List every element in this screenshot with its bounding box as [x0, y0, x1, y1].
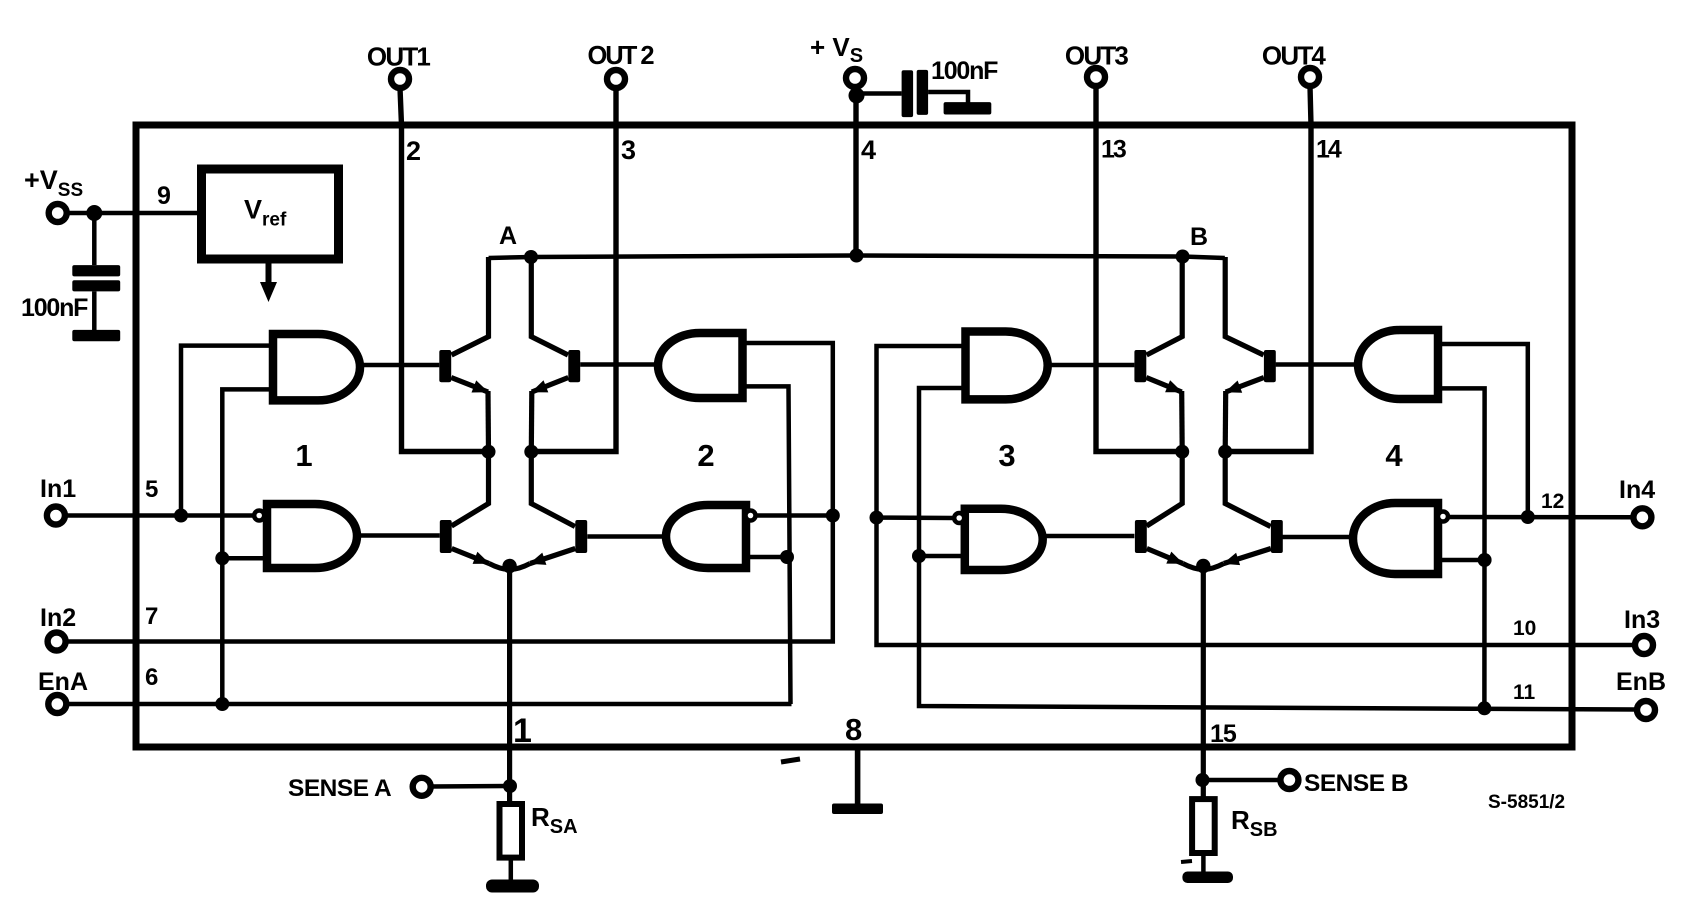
svg-text:EnA: EnA [38, 668, 88, 696]
AND gate 4 upper [1358, 330, 1438, 399]
svg-text:3: 3 [998, 438, 1015, 473]
wire gate 2 lower output [587, 534, 666, 539]
wire In1 to gate 1 input [181, 346, 273, 516]
wire In4 pin 12 [1448, 515, 1635, 520]
svg-text:3: 3 [621, 135, 636, 165]
svg-text:+VSS: +VSS [24, 165, 83, 201]
svg-text:RSA: RSA [531, 802, 578, 838]
AND gate 1 upper [273, 334, 360, 400]
junction EnA/gate1 lower [215, 551, 229, 565]
transistor Q2 collector wire [531, 257, 568, 355]
wire In2 pin 7 [64, 343, 833, 642]
IC outline box [136, 125, 1572, 747]
svg-text:1: 1 [513, 712, 532, 750]
stray mark 2 [1181, 861, 1192, 862]
svg-text:S-5851/2: S-5851/2 [1488, 792, 1565, 813]
wire gate 1 upper output [360, 363, 439, 368]
AND gate 3 upper [966, 332, 1048, 400]
wire OUT4 pin 14 [1226, 86, 1311, 452]
wire OUT3 pin 13 [1096, 86, 1182, 452]
junction EnA/gate2 lower [780, 550, 794, 564]
terminal OUT2 (pin 3) [607, 70, 625, 88]
junction EnB/gate4 [1477, 701, 1491, 715]
wire Q1 emitter to output node [485, 391, 491, 452]
wire RSB to ground [1201, 853, 1206, 874]
svg-text:14: 14 [1316, 136, 1342, 164]
wire gate 3 lower output [1043, 534, 1135, 539]
ground (RSA) [486, 880, 539, 893]
wire SENSE A lead [431, 784, 510, 789]
ground (left cap) [72, 330, 120, 341]
transistor Q2 emitter [532, 378, 569, 393]
wire EnA to gate 2 inputs [743, 386, 791, 704]
wire EnB pin 11 [919, 388, 1637, 710]
terminal OUT3 (pin 13) [1087, 68, 1105, 86]
transistor Q4 collector wire [531, 452, 575, 527]
wire EnA branch to gate 1 lower input [222, 556, 267, 561]
resistor RSA [500, 804, 523, 858]
wire +Vss pin 9 [65, 211, 203, 216]
svg-text:2: 2 [406, 136, 421, 166]
terminal In1 (pin 5) [47, 507, 65, 525]
wire common emitter bowl A [489, 564, 530, 570]
wire common emitter bowl B [1183, 564, 1224, 570]
junction sense A [503, 779, 517, 793]
wire gate 1 lower output [357, 533, 440, 538]
AND gate 4 lower [1353, 503, 1438, 574]
wire cap C1 top lead [92, 213, 97, 265]
terminal EnA (pin 6) [48, 695, 66, 713]
svg-text:11: 11 [1513, 681, 1536, 704]
wire In3 to gate 3 lower bubble [877, 515, 955, 520]
terminal In2 (pin 7) [48, 633, 66, 651]
node B [1176, 250, 1190, 264]
output node B left (junction) [1175, 445, 1189, 459]
terminal SENSE A [413, 778, 431, 796]
svg-text:100nF: 100nF [21, 294, 88, 322]
wire OUT2 pin 3 [531, 88, 616, 452]
terminal In3 (pin 10) [1635, 636, 1653, 654]
transistor Q8 base [1271, 520, 1283, 553]
svg-text:9: 9 [157, 182, 171, 210]
wire In1 pin 5 [64, 513, 255, 518]
svg-text:13: 13 [1101, 136, 1126, 164]
inverter bubble gate 3 lower input [954, 513, 964, 523]
svg-text:OUT 2: OUT 2 [587, 42, 654, 70]
transistor Q1 emitter [451, 378, 488, 393]
transistor Q2 base [568, 350, 580, 382]
transistor Q4 emitter [530, 549, 575, 564]
junction In4/gate4 upper [1521, 510, 1535, 524]
transistor Q3 collector wire [452, 452, 489, 526]
wire OUT1 pin 2 [400, 88, 489, 452]
output node A left (junction) [482, 445, 496, 459]
transistor Q7 base [1135, 520, 1147, 553]
AND gate 3 lower [965, 509, 1043, 570]
svg-text:In1: In1 [40, 475, 76, 503]
svg-text:15: 15 [1210, 720, 1237, 748]
svg-text:12: 12 [1541, 490, 1564, 513]
wire gate 3 upper output [1048, 363, 1135, 368]
transistor Q5 base [1134, 350, 1146, 382]
junction EnA/gate1 branch [215, 697, 229, 711]
transistor Q6 emitter [1226, 378, 1264, 393]
wire cap C1 bottom lead [92, 291, 97, 331]
transistor Q6 base [1264, 350, 1276, 382]
capacitor C1 100nF plate 1 [72, 265, 120, 276]
terminal OUT1 (pin 2) [391, 70, 409, 88]
output node A right (junction) [524, 445, 538, 459]
wire Q6 emitter to output node [1223, 391, 1229, 452]
inverter bubble gate 1 lower input [254, 511, 264, 521]
junction sense B [1196, 773, 1210, 787]
svg-text:1: 1 [295, 438, 312, 473]
wire EnB branch to gate 3 lower input [919, 554, 965, 559]
arrow below Vref [266, 259, 272, 284]
junction +Vs/cap [849, 88, 865, 104]
svg-text:8: 8 [845, 712, 862, 747]
svg-text:OUT1: OUT1 [367, 42, 430, 72]
wire SENSE B lead [1203, 778, 1280, 783]
transistor Q7 emitter [1147, 549, 1183, 564]
wire +Vs pin 4 [855, 87, 856, 256]
terminal SENSE B [1280, 771, 1298, 789]
wire RSA to ground [509, 858, 514, 882]
transistor Q8 emitter [1224, 549, 1271, 564]
wire Q5 emitter to output node [1179, 391, 1185, 452]
wire EnA pin 6 [65, 702, 792, 707]
svg-text:Vref: Vref [244, 195, 287, 231]
wire In3 pin 10 [877, 346, 1637, 645]
junction In1/gate1 [174, 509, 188, 523]
wire EnB branch to gate 4 lower input [1438, 558, 1485, 563]
transistor Q1 base [439, 350, 451, 382]
transistor Q3 emitter [452, 549, 489, 564]
svg-text:A: A [499, 222, 517, 250]
AND gate 1 lower [267, 504, 357, 568]
svg-text:B: B [1190, 223, 1208, 251]
AND gate 2 upper [658, 333, 743, 398]
transistor Q1 collector wire [452, 257, 489, 355]
wire gate 2 upper output [580, 362, 658, 367]
stray mark [781, 759, 800, 762]
svg-text:In4: In4 [1619, 476, 1655, 504]
wire EnB to gate 4 inputs [1438, 388, 1485, 707]
capacitor C2 100nF plate 1 [902, 70, 914, 117]
transistor Q4 base [575, 520, 587, 553]
svg-text:+ VS: + VS [810, 32, 863, 67]
svg-text:5: 5 [145, 476, 158, 503]
wire pin 15 sense B [1201, 566, 1206, 801]
terminal In4 (pin 12) [1633, 508, 1651, 526]
output node B right (junction) [1218, 445, 1232, 459]
terminal +Vss (pin 9) [49, 204, 67, 222]
wire gate 4 upper output [1276, 362, 1358, 367]
svg-text:2: 2 [697, 438, 714, 473]
node A [524, 250, 538, 264]
junction In3/gate3 lower [870, 511, 884, 525]
wire internal +Vs rail [489, 256, 1225, 259]
svg-text:RSB: RSB [1231, 805, 1278, 841]
common emitter node B (junction) [1196, 559, 1210, 573]
inverter bubble gate 4 lower input [1438, 512, 1448, 522]
svg-text:OUT3: OUT3 [1065, 41, 1128, 71]
transistor Q3 base [440, 520, 452, 553]
svg-text:10: 10 [1513, 617, 1536, 640]
svg-text:4: 4 [861, 135, 876, 165]
junction +Vss/cap [86, 205, 102, 221]
wire gate 4 lower output [1280, 535, 1353, 540]
svg-text:6: 6 [145, 664, 158, 691]
transistor Q5 collector wire [1147, 257, 1183, 355]
transistor Q5 emitter [1146, 378, 1181, 393]
svg-text:In2: In2 [40, 604, 76, 632]
svg-text:SENSE A: SENSE A [288, 775, 392, 802]
wire In4 to gate 4 upper input [1438, 344, 1528, 517]
voltage reference box Vref [202, 169, 339, 259]
svg-text:OUT4: OUT4 [1262, 41, 1326, 71]
svg-text:EnB: EnB [1616, 668, 1666, 696]
terminal OUT4 (pin 14) [1301, 68, 1319, 86]
wire EnA branch to gate 2 lower input [746, 555, 787, 560]
inverter bubble gate 2 lower input [746, 511, 756, 521]
wire Q2 emitter to output node [529, 391, 535, 452]
common emitter node A (junction) [502, 559, 516, 573]
transistor Q6 collector wire [1225, 257, 1263, 355]
transistor Q8 collector wire [1225, 452, 1270, 527]
terminal +Vs (pin 4) [846, 69, 864, 87]
svg-text:7: 7 [145, 603, 158, 630]
terminal EnB (pin 11) [1637, 701, 1655, 719]
junction In2/gate2 lower [826, 509, 840, 523]
resistor RSB [1192, 799, 1215, 853]
wire EnA to gate 1 inputs [222, 389, 273, 704]
ground (RSB) [1182, 872, 1233, 884]
junction rail/+Vs [850, 249, 864, 263]
ground (pin 8) [832, 804, 883, 815]
AND gate 2 lower [666, 505, 746, 568]
transistor Q7 collector wire [1147, 452, 1183, 526]
svg-text:4: 4 [1385, 438, 1403, 473]
wire pin 8 ground lead [855, 747, 861, 806]
wire cap C2 right lead [928, 92, 968, 104]
wire cap C2 left lead [857, 91, 902, 96]
wire In2 to gate 2 lower bubble [755, 513, 833, 518]
capacitor C1 100nF plate 2 [72, 280, 120, 291]
wire pin 1 sense A [507, 566, 512, 806]
junction EnB/gate3 lower [912, 549, 926, 563]
junction EnB/gate4 lower [1478, 553, 1492, 567]
capacitor C2 100nF plate 2 [917, 70, 928, 115]
svg-text:SENSE B: SENSE B [1304, 770, 1408, 797]
ground (top cap) [944, 102, 992, 114]
svg-text:In3: In3 [1624, 606, 1660, 634]
svg-text:100nF: 100nF [931, 57, 998, 85]
